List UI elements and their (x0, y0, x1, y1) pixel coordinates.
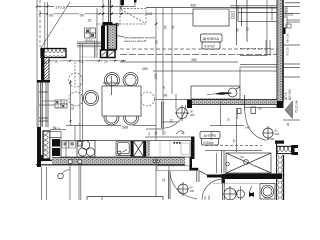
svg-text:Коридор: Коридор (283, 7, 287, 18)
svg-text:55: 55 (55, 59, 59, 63)
door leaf wc (222, 179, 224, 200)
room top boundary line (146, 7, 277, 9)
svg-text:206: 206 (190, 113, 195, 117)
svg-text:П+2,20: П+2,20 (286, 47, 290, 56)
door lintel lines left of shaft (75, 40, 101, 85)
svg-text:11: 11 (182, 131, 186, 135)
svg-text:95: 95 (49, 13, 54, 18)
label box ANTRE (200, 132, 220, 146)
wall left window band (38, 83, 60, 128)
dim 75 vertical (74, 126, 76, 161)
witness verticals living room (156, 8, 172, 197)
svg-text:98: 98 (164, 94, 168, 98)
dashed duct rect (120, 9, 146, 25)
svg-text:22: 22 (162, 178, 166, 182)
left dim 310 (70, 80, 72, 125)
second circle fixture (237, 190, 245, 198)
dim 45 kitchen (50, 129, 66, 131)
valve diamond (249, 192, 254, 197)
balcony table rect (87, 196, 163, 198)
svg-text:206: 206 (190, 189, 195, 193)
dashed + solid bath lines (205, 145, 262, 147)
svg-text:53: 53 (155, 40, 159, 44)
svg-text:15: 15 (44, 61, 48, 65)
light fixture bath (262, 126, 274, 140)
dashed ceiling lines (120, 48, 277, 50)
light fixture mid (175, 105, 189, 121)
dim line y60 (49, 60, 126, 62)
svg-text:63: 63 (164, 25, 168, 29)
door arc living (161, 102, 163, 129)
svg-text:120: 120 (288, 13, 294, 17)
svg-text:90/206: 90/206 (210, 131, 214, 140)
svg-text:310: 310 (71, 104, 75, 110)
node top vertical dims (97, 0, 135, 44)
svg-text:63: 63 (246, 27, 250, 31)
svg-text:20: 20 (154, 132, 158, 136)
svg-text:22: 22 (163, 131, 167, 135)
label box DNEVNA (201, 34, 223, 49)
svg-text:133: 133 (154, 73, 158, 79)
svg-text:63: 63 (171, 25, 175, 29)
svg-text:58: 58 (236, 28, 240, 32)
svg-text:206: 206 (275, 132, 280, 136)
sink (116, 141, 131, 156)
wall left black bar lower (37, 127, 41, 167)
room mid boundary (153, 70, 277, 72)
svg-text:485: 485 (191, 58, 197, 62)
chairs solid (84, 73, 139, 126)
dining table (102, 86, 141, 116)
svg-text:6,74: 6,74 (55, 127, 61, 131)
svg-text:60: 60 (234, 189, 238, 193)
svg-text:485: 485 (142, 67, 148, 71)
svg-text:ДНЕВНА: ДНЕВНА (203, 36, 220, 41)
svg-text:90: 90 (259, 106, 263, 110)
svg-text:В2+СМ: В2+СМ (288, 89, 292, 100)
window symbol 90/90 (85, 28, 96, 38)
column squares pair (101, 50, 116, 58)
svg-text:2/206: 2/206 (267, 137, 274, 141)
mid wall band stipple (187, 100, 277, 109)
kitchen tall cabinet column (50, 132, 61, 161)
black wall bar below tub (225, 174, 282, 180)
svg-text:6.50м²: 6.50м² (204, 141, 215, 145)
bath door arc lower (170, 173, 197, 199)
dim line 485 mid (120, 61, 238, 63)
svg-text:решетка с маса 55: решетка с маса 55 (124, 39, 147, 43)
svg-text:142: 142 (245, 125, 250, 129)
top shaft structure (96, 0, 123, 51)
TV cabinet rect (193, 9, 229, 26)
note text leader (117, 36, 124, 38)
svg-text:485: 485 (191, 4, 197, 8)
svg-text:90: 90 (241, 155, 245, 159)
svg-text:12: 12 (170, 118, 174, 122)
hob (77, 141, 95, 158)
divider black (131, 141, 134, 157)
bathtub (226, 153, 271, 173)
svg-text:342: 342 (231, 12, 235, 18)
light fixture lower (177, 182, 189, 196)
column hatched kitchen (43, 131, 50, 159)
sofa bench (191, 86, 240, 99)
washing machine (260, 184, 275, 200)
dim 388 (66, 125, 121, 127)
wall bottom stipple band (36, 154, 207, 183)
door jambs mid (238, 109, 242, 114)
svg-text:90: 90 (227, 117, 231, 121)
svg-text:213: 213 (147, 12, 153, 16)
wire diagonal top-left (41, 2, 70, 48)
wardrobe top lines (230, 6, 277, 21)
corridor right lines (283, 7, 300, 29)
black triangle marker (285, 101, 293, 119)
svg-text:75: 75 (233, 139, 237, 143)
balcony verticals (42, 165, 81, 200)
chairs dashed (69, 73, 155, 106)
bathroom west wall (221, 151, 223, 174)
wall hatched bar top-left (41, 49, 66, 58)
svg-text:206: 206 (207, 195, 211, 200)
east wall lower hatched (275, 141, 298, 201)
svg-text:73,10 м²: 73,10 м² (295, 99, 299, 113)
svg-text:13: 13 (147, 132, 151, 136)
closet near east wall (240, 40, 277, 86)
kitchen counter (61, 137, 195, 160)
wall vertical hatched left (37, 58, 50, 83)
svg-text:15: 15 (88, 19, 92, 23)
svg-text:388: 388 (122, 125, 129, 130)
svg-text:55: 55 (104, 59, 108, 63)
wire top-left dim line 170,5 (37, 7, 193, 14)
partition double line (79, 44, 81, 141)
svg-text:170,5: 170,5 (55, 5, 66, 10)
svg-text:20: 20 (162, 85, 166, 89)
east main wall hatched (277, 0, 284, 108)
wire left dimension chain verticals (37, 0, 47, 127)
svg-text:9.97м²: 9.97м² (204, 44, 215, 48)
bathroom door arc upper (245, 110, 267, 141)
wc circle (222, 186, 238, 200)
small circle symbol (58, 173, 64, 179)
svg-text:90: 90 (80, 13, 85, 18)
svg-text:90: 90 (286, 122, 290, 126)
svg-text:НВ-1,45: НВ-1,45 (286, 33, 290, 43)
dim 98 (156, 99, 192, 101)
